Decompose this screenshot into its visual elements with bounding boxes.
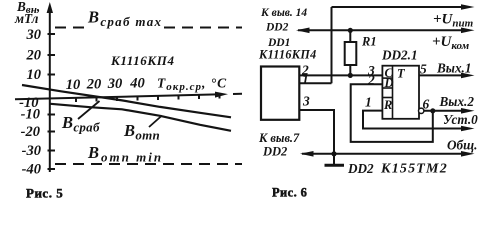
svg-text:Уст.0: Уст.0 — [443, 112, 478, 127]
svg-text:Вых.1: Вых.1 — [436, 61, 471, 76]
svg-text:-10: -10 — [21, 107, 40, 123]
flip-flop DD2.1 body with C/D/R field and T label — [382, 66, 419, 119]
wire common (Obshch) with arrowhead and left arrow to pin 7 of DD2 — [300, 151, 475, 157]
wire DD1 pin 2 to DD2.1 C input — [299, 74, 382, 76]
wire DD1 pin 3 to common node — [299, 110, 334, 154]
solid curve B_otp — [51, 104, 232, 131]
svg-text:К выв. 14: К выв. 14 — [260, 7, 307, 19]
svg-text:5: 5 — [420, 62, 427, 77]
junction node R1 bottom — [348, 73, 353, 78]
junction node Vyh.2 feedback — [430, 108, 435, 113]
x-axis T with arrowhead — [15, 92, 242, 100]
wire DD1 pin 1 to +Upit rail — [299, 7, 331, 83]
wire +Ukom rail with right arrowhead — [298, 28, 475, 34]
svg-text:1: 1 — [302, 72, 309, 87]
dashed curve B_srab_max — [55, 27, 242, 29]
svg-text:10: 10 — [66, 77, 81, 93]
svg-text:-20: -20 — [21, 124, 40, 140]
svg-text:30: 30 — [107, 76, 123, 92]
dashed curve B_otp_min — [55, 163, 242, 165]
y-axis title "Ввн, мТл" — [14, 0, 40, 26]
wire output Vyh.1 with arrowhead — [419, 73, 475, 79]
wire output Vyh.2 with arrowhead — [423, 108, 474, 114]
wire DD2.1 R input to Ust.0 line with arrowhead — [363, 111, 475, 132]
leader line to curve B_srab — [78, 101, 100, 119]
junction node common/ground — [331, 151, 336, 156]
y-axis tick marks — [48, 34, 56, 169]
wire DD2.1 D input feedback from Vyh.2 node — [351, 84, 433, 142]
inversion circle on DD2.1 pin 6 — [419, 108, 424, 113]
svg-text:DD2.1: DD2.1 — [381, 48, 418, 63]
svg-text:DD2: DD2 — [347, 161, 374, 176]
resistor R1 — [345, 30, 357, 75]
svg-text:-30: -30 — [22, 143, 41, 159]
svg-text:Рис. 6: Рис. 6 — [272, 186, 307, 200]
svg-text:К выв.7: К выв.7 — [258, 131, 300, 145]
IC DD1 body — [261, 67, 299, 120]
x-axis tick marks — [76, 94, 220, 102]
ground — [325, 154, 345, 166]
solid curve B_srab — [22, 85, 231, 117]
svg-text:К1116КП4: К1116КП4 — [258, 48, 317, 62]
svg-text:20: 20 — [86, 76, 102, 92]
svg-text:R: R — [383, 98, 392, 112]
svg-text:3: 3 — [302, 94, 310, 109]
svg-text:DD2: DD2 — [265, 22, 289, 34]
svg-text:10: 10 — [27, 67, 42, 83]
svg-text:20: 20 — [26, 48, 42, 64]
svg-text:Вых.2: Вых.2 — [439, 94, 475, 109]
wire +Upit rail with arrowhead — [332, 4, 475, 10]
junction node R1 top — [348, 28, 353, 33]
svg-text:К155ТМ2: К155ТМ2 — [380, 162, 448, 177]
svg-text:Общ.: Общ. — [447, 137, 477, 152]
svg-text:DD2: DD2 — [262, 145, 287, 159]
svg-text:-40: -40 — [22, 162, 41, 178]
svg-text:К1116КП4: К1116КП4 — [110, 53, 175, 68]
svg-text:R1: R1 — [361, 35, 377, 49]
leader line to curve B_otp — [149, 116, 162, 128]
svg-text:40: 40 — [129, 76, 145, 92]
svg-text:Рис. 5: Рис. 5 — [26, 186, 63, 201]
svg-text:30: 30 — [26, 27, 42, 43]
svg-text:2: 2 — [367, 72, 375, 87]
svg-text:мТл: мТл — [14, 11, 39, 26]
arrow to pin 14 of DD2 (left) — [296, 28, 310, 34]
y-axis B_vn with arrowhead — [47, 2, 53, 172]
svg-text:1: 1 — [365, 95, 372, 110]
svg-text:6: 6 — [423, 97, 430, 112]
svg-text:D: D — [384, 76, 394, 90]
